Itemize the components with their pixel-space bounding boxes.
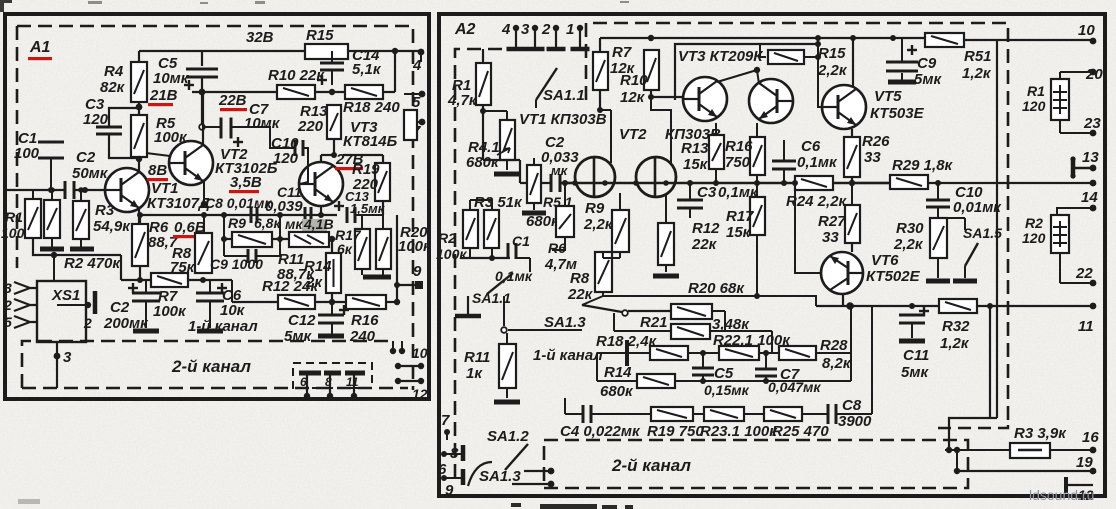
wire to VT3 base [651,96,683,98]
wire [331,323,333,334]
wire [724,311,726,331]
svg-text:54,9к: 54,9к [93,218,131,235]
svg-text:11: 11 [346,375,359,389]
connector pin12 [1066,477,1093,493]
capacitor C2 A2 [551,174,560,192]
pin13 node [1090,165,1097,172]
svg-text:КТ3107Д: КТ3107Д [147,195,210,212]
wire right vertical [996,40,998,418]
resistor R12 [278,295,315,309]
capacitor C5 A2 [692,368,714,375]
capacitor C6 [196,293,224,301]
pin7 node [444,429,450,435]
top edge specks [88,1,629,4]
transistor VT3 A2 [683,77,727,121]
node C1 [48,187,54,193]
wire [744,413,764,415]
wire pin4 stub [420,52,422,62]
ground R17 R20 [363,275,391,280]
red underline [335,167,363,170]
wire [331,293,333,302]
node [754,180,760,186]
wire C1 up [50,158,52,190]
svg-text:100: 100 [1,225,25,241]
svg-text:R16: R16 [351,312,379,329]
node 11 [351,393,357,399]
svg-text:9: 9 [413,263,422,280]
svg-text:8,2к: 8,2к [822,355,852,372]
svg-text:100к: 100к [398,238,432,255]
svg-text:23: 23 [1083,115,1101,132]
resistor R29 [890,175,928,189]
wire C6 [209,280,211,293]
resistor R13 A2 [709,135,724,169]
svg-text:R15: R15 [818,45,846,62]
node [700,378,706,384]
node R5 bottom [136,156,142,162]
wire R5.1 top [533,158,535,165]
resistor R27 [845,205,860,243]
svg-text:КТ814Б: КТ814Б [343,133,398,150]
node R24 left [792,180,798,186]
svg-text:R20 68к: R20 68к [688,280,745,297]
node [754,67,760,73]
svg-text:С9: С9 [917,55,937,72]
node VT3 emitter [318,212,324,218]
wire [279,239,281,256]
resistor R25 [764,407,802,421]
arrow R4.1 [497,148,510,155]
wire VT3 emitter [320,206,322,215]
svg-text:R10: R10 [620,72,648,89]
wire VT5 top [852,38,854,86]
wire C6 dn [209,301,211,328]
capacitor C9 1000 [248,249,256,263]
svg-text:20: 20 [1085,66,1103,83]
wire R2 top stub [469,200,471,210]
wire R2R3 top [470,199,492,201]
wire VT3 collector [320,155,322,162]
switch SA1.3 low arm [468,462,492,486]
wire R4 top [138,51,140,62]
wire right col [871,306,873,414]
resistor R3 A2 [484,210,499,248]
wire R10-R18 [315,91,345,93]
wire 22V node [192,91,277,93]
wire [600,109,611,111]
capacitor C8 [251,207,257,223]
svg-text:R12 24к: R12 24к [262,278,319,295]
node [763,378,769,384]
wire [361,269,363,275]
svg-text:5,1к: 5,1к [352,61,382,78]
wire [331,302,333,315]
wire R2 up [51,190,53,200]
wire VT5 dn [851,129,853,137]
wire C6 dn [783,169,785,183]
block A2 outer border [439,14,1105,496]
svg-text:R21: R21 [640,314,668,331]
wire R13 dn [715,169,717,183]
svg-text:R28: R28 [820,337,848,354]
wire R1 to C2 [483,159,520,161]
connector pin9 [444,469,463,485]
svg-text:2: 2 [3,297,12,313]
dashed box 2nd channel A1 [22,341,408,388]
svg-text:С1: С1 [512,233,530,249]
pin 3 node [532,25,538,31]
svg-text:5: 5 [412,94,421,111]
wire pin16 [1050,449,1093,451]
jack node [85,302,91,308]
switch SA1.3 arm [582,305,622,312]
svg-text:SA1.2: SA1.2 [487,428,529,445]
svg-text:0,15мк: 0,15мк [704,382,750,398]
transistor VT4 A2 [749,79,793,123]
svg-text:82к: 82к [100,79,126,96]
svg-text:С3: С3 [697,184,717,201]
wire [382,269,384,275]
svg-text:R10 22к: R10 22к [268,67,325,84]
capacitor C10 [295,140,303,156]
wire [759,352,779,354]
svg-text:5мк: 5мк [901,364,929,381]
wire [688,352,719,354]
svg-text:R3 3,9к: R3 3,9к [1014,425,1067,442]
svg-text:50мк: 50мк [72,165,109,182]
svg-text:120: 120 [273,150,299,167]
wire R27 top [851,183,853,205]
wire R2 dn [51,238,53,247]
wire R2 top [1057,208,1093,215]
svg-text:R7: R7 [612,44,632,61]
svg-text:R9: R9 [228,215,246,231]
wire R16 top [756,123,758,137]
FET VT1 A2 [572,157,615,197]
node [954,468,960,474]
wire pin10 feed b [401,341,403,351]
resistor R8 [195,233,212,273]
node C11 [909,303,915,309]
resistor R26 [844,137,860,177]
wire [512,483,551,485]
svg-text:0,1мк: 0,1мк [797,154,838,171]
ground R3 [70,247,94,252]
input arrow 2 [14,299,37,311]
svg-text:мк: мк [285,216,303,232]
connector pin 2 [547,28,566,49]
wire C2 to VT1 [74,189,106,191]
resistor R9 A2 [612,210,629,252]
resistor R13 [327,105,341,139]
wire VT3 emitter link [717,70,757,82]
wire C14 dn [331,70,333,85]
page corner mark [0,0,12,12]
capacitor C1 A2 [508,243,516,259]
wire R5.1 dn [533,203,535,210]
wire C9 top [901,38,903,62]
node 21V [136,104,143,111]
svg-text:100: 100 [14,145,40,162]
wire [816,352,851,354]
resistor R6 [132,224,148,266]
input arrow 5 [14,316,37,328]
wire [710,330,772,332]
capacitor C9 A2 [886,62,918,71]
resistor R1 A2 [476,63,491,105]
wire dn to C2 [519,160,521,183]
wire C1 out [516,257,530,259]
wire VT2 emitter dn [203,181,205,204]
resistor R2 [44,200,60,238]
ground R11 [494,400,520,405]
wire [765,376,767,381]
wire [836,413,872,415]
svg-text:R12: R12 [692,220,720,237]
wire C10 [937,183,939,200]
wire R9 left col [223,215,225,256]
svg-text:22к: 22к [691,236,718,253]
ground R30 [926,279,950,284]
svg-text:С4 0,022мк: С4 0,022мк [560,423,641,440]
capacitor C7 A2 [755,369,777,376]
svg-text:2-й канал: 2-й канал [611,456,691,475]
node [849,180,855,186]
svg-text:VT1 КП303В: VT1 КП303В [519,111,607,128]
svg-text:VT6: VT6 [871,252,899,269]
block A2 inner dashed border [455,23,1008,478]
resistor R6 A2 [556,206,574,237]
resistor R4 [131,62,147,102]
resistor R16 A2 [750,137,765,175]
svg-text:10: 10 [412,345,428,361]
svg-text:С8: С8 [842,397,862,414]
wire row5 [565,413,583,415]
svg-text:15к: 15к [683,156,709,173]
wire R19 top [382,155,384,163]
node R9 left [221,236,227,242]
wire VT6 to R32 [816,305,939,307]
dashed connector box 6 8 11 [293,363,372,388]
resistor R30 [930,218,947,258]
svg-text:5: 5 [4,314,12,330]
wire pin7 stub [404,121,422,123]
ground C6 [197,329,223,334]
wire R2 dn [469,248,471,258]
wire [362,214,383,216]
wire C14 top [331,51,333,63]
svg-text:R2 470к: R2 470к [64,255,121,272]
wire C1 dn [50,158,52,187]
resistor R32 [939,299,977,313]
wire R3 dn [491,248,493,258]
capacitor C14 [320,63,344,70]
transistor VT6 [821,252,863,294]
pin20 node [1090,69,1097,76]
input arrow 3 [14,282,37,294]
node [815,35,821,41]
pin11 node [1090,303,1097,310]
wire [232,301,278,303]
pin10 node [1090,38,1097,45]
wire [627,352,650,354]
contact SA1.3 [622,310,628,316]
node [394,299,400,305]
svg-text:С12: С12 [288,312,316,329]
wire left col [596,353,598,381]
resistor R2 right stripes [1053,227,1067,243]
node [781,180,787,186]
dashed border bottom right [938,425,1008,428]
red underline [220,108,247,111]
wire [483,110,507,112]
svg-text:R51: R51 [964,48,992,65]
node R1 [480,108,486,114]
wire VT2 collector [202,92,204,145]
wire C4 up [564,398,566,414]
block A1 inner dashed border [17,26,413,390]
svg-text:200мк: 200мк [103,315,149,332]
svg-text:13: 13 [1082,149,1099,166]
wire [272,238,289,240]
wire pin9 stub [397,284,419,286]
wire R2 dn [1059,253,1061,283]
wire row [460,257,510,259]
wire top rail left [600,37,651,39]
wire R15 to rail [817,38,819,57]
svg-text:SA1.3: SA1.3 [544,314,586,331]
wire [386,301,397,303]
wire R16 dn [756,175,758,183]
resistor R21 [671,304,712,319]
wire [613,313,615,331]
node [548,468,555,475]
node [648,94,654,100]
capacitor C8 A2 [828,404,836,424]
wire 32V rail right [348,50,421,52]
wire to SA1.3 [508,329,582,331]
wire R6 dn [552,237,565,250]
node VT1 drain [597,107,603,113]
svg-text:6: 6 [300,375,307,389]
wire main mid [560,182,890,184]
node [78,187,84,193]
svg-text:А2: А2 [454,21,476,38]
left edge smudge [18,499,40,504]
svg-text:0,039: 0,039 [265,198,303,215]
svg-text:220: 220 [297,118,324,135]
wire R4.1 dn [506,160,508,170]
svg-text:19: 19 [1076,454,1093,471]
pin8 node [441,451,447,457]
node C12 [329,299,335,305]
svg-text:8В: 8В [148,162,167,179]
svg-text:680к: 680к [600,383,634,400]
connector SA1.1 [455,296,481,316]
resistor R24 [795,176,833,190]
svg-text:КТ503Е: КТ503Е [870,105,925,122]
node [394,282,400,288]
svg-text:3: 3 [63,349,72,366]
resistor R1 [25,199,41,238]
wire SA1.5 dn [964,266,966,278]
jack contact XS1 [93,291,98,314]
pin19 node [1090,468,1097,475]
wire C7 to C10 [231,127,295,148]
wire dn to R7 row [120,255,122,280]
wire R4.1 top [506,111,508,120]
node [548,481,555,488]
node R11 out [329,236,335,242]
wire C3 dn [689,208,691,218]
node C7 [763,350,769,356]
wire VT2 drain link [651,97,671,120]
svg-text:22: 22 [1075,265,1093,282]
capacitor C11 [899,315,925,323]
wire C3 [689,183,691,200]
node R15 out [392,48,398,54]
bottom cut text smudge [511,503,633,509]
wire [938,217,965,219]
pin10 node b [399,348,405,354]
capacitor C13 [347,207,355,223]
red underline [173,235,203,238]
tap bar [625,340,629,366]
svg-text:VT2: VT2 [619,126,647,143]
svg-text:10мк: 10мк [244,115,281,132]
svg-text:R1: R1 [5,209,23,225]
svg-text:С2: С2 [110,299,130,316]
wire R18 to rail [394,51,396,92]
svg-text:1-й канал: 1-й канал [533,347,603,364]
pin23 node [1090,130,1097,137]
pin 1 node [577,25,583,31]
wire [619,252,621,258]
svg-text:R8: R8 [570,270,590,287]
svg-text:2-й канал: 2-й канал [171,357,251,376]
svg-text:100к: 100к [436,246,467,262]
wire R7 dn [599,90,601,110]
wire 32V rail [139,50,305,52]
resistor R12 A2 [658,223,674,265]
wire to SA1.3 [582,296,603,305]
svg-text:14: 14 [1081,189,1098,206]
svg-text:R4: R4 [104,63,124,80]
svg-text:2,2к: 2,2к [893,236,924,253]
wire R30 dn [937,258,939,278]
wire C5 top [201,51,203,66]
capacitor C7 [221,118,231,139]
wire XS1 dn [56,342,58,356]
wire R8 dn [602,292,604,296]
capacitor C10 A2 [926,200,950,207]
wire [693,413,704,415]
transistor VT1 KT3107D [105,168,149,212]
connector pin8 [444,445,463,461]
ground C2b [133,329,159,334]
svg-text:R6: R6 [548,240,566,256]
pin16 node [1090,447,1097,454]
resistor R2 A2 [463,210,478,248]
svg-text:120: 120 [1022,98,1046,114]
node C3 [687,180,693,186]
node [850,35,856,41]
node R2 470k [51,252,57,258]
capacitor C4 [583,405,591,423]
wire [279,215,281,239]
wire C2b [145,280,147,293]
wire to XS1 [53,255,55,281]
